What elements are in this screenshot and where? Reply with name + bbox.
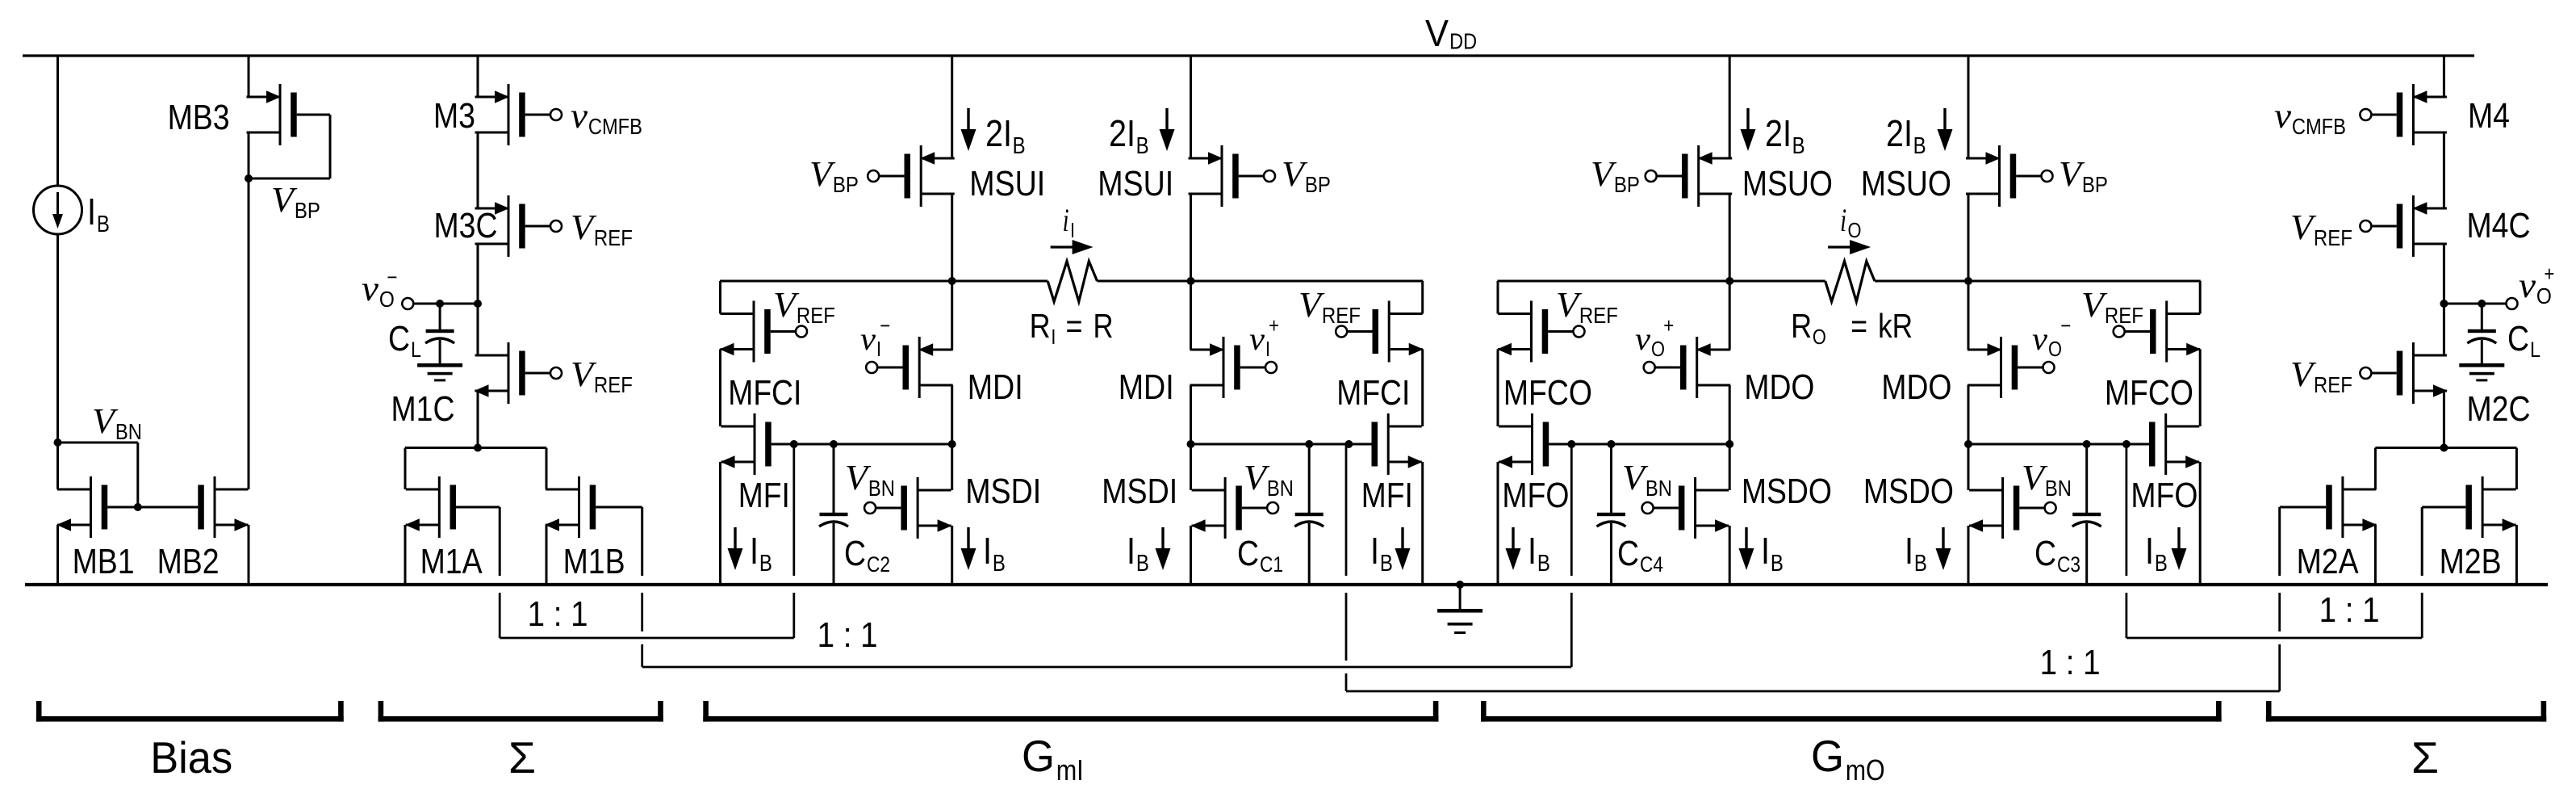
svg-text:I: I [2145, 530, 2154, 572]
svg-text:B: B [1537, 551, 1550, 577]
svg-text:2I: 2I [1886, 112, 1913, 154]
svg-text:I: I [983, 530, 992, 572]
svg-text:MSUI: MSUI [1098, 164, 1173, 203]
svg-text:−: − [880, 313, 890, 338]
svg-text:Σ: Σ [508, 732, 536, 782]
svg-text:mI: mI [1056, 753, 1084, 787]
svg-text:MSUO: MSUO [1861, 164, 1951, 203]
svg-text:MB3: MB3 [168, 98, 230, 137]
svg-text:MFCI: MFCI [1336, 373, 1410, 413]
svg-text:C: C [1617, 534, 1639, 573]
svg-text:R: R [1791, 307, 1812, 345]
svg-text:2I: 2I [1109, 112, 1135, 154]
svg-text:kR: kR [1878, 307, 1913, 345]
svg-text:MFO: MFO [2131, 476, 2198, 515]
svg-text:V: V [1425, 12, 1449, 54]
svg-text:v: v [860, 321, 876, 357]
svg-text:v: v [571, 96, 588, 136]
svg-text:O: O [1813, 325, 1826, 349]
svg-text:B: B [993, 551, 1006, 577]
svg-text:L: L [411, 338, 421, 362]
svg-text:v: v [362, 269, 379, 308]
svg-text:REF: REF [797, 303, 835, 328]
svg-text:G: G [1022, 731, 1055, 781]
svg-text:1 : 1: 1 : 1 [2319, 590, 2380, 630]
svg-text:M2B: M2B [2440, 542, 2502, 581]
svg-text:MSUO: MSUO [1742, 164, 1833, 203]
svg-text:v: v [2519, 266, 2536, 305]
svg-text:M1A: M1A [420, 542, 483, 581]
svg-text:BP: BP [833, 172, 859, 197]
svg-text:−: − [2060, 313, 2071, 338]
svg-text:I: I [1370, 530, 1379, 572]
svg-text:B: B [1136, 551, 1149, 577]
svg-text:MFCI: MFCI [728, 373, 801, 413]
svg-text:M1B: M1B [563, 542, 625, 581]
svg-text:B: B [1136, 133, 1149, 159]
svg-text:MSDI: MSDI [1102, 472, 1177, 511]
svg-text:C: C [1237, 534, 1259, 573]
svg-text:BN: BN [868, 476, 895, 501]
svg-text:DD: DD [1449, 29, 1477, 54]
svg-text:O: O [379, 287, 395, 312]
svg-text:B: B [97, 212, 110, 237]
svg-text:MSDO: MSDO [1863, 472, 1954, 511]
svg-text:MB1: MB1 [73, 542, 135, 581]
svg-text:B: B [1792, 133, 1805, 159]
svg-text:I: I [1265, 337, 1270, 361]
svg-text:I: I [750, 530, 759, 572]
svg-text:MFO: MFO [1502, 476, 1569, 515]
svg-text:C: C [2507, 319, 2529, 359]
svg-text:MFCO: MFCO [1503, 373, 1592, 413]
svg-text:REF: REF [2314, 225, 2352, 250]
svg-text:C3: C3 [2057, 552, 2080, 577]
svg-text:O: O [1651, 337, 1665, 361]
svg-text:+: + [2544, 262, 2554, 286]
svg-text:REF: REF [1579, 303, 1618, 328]
svg-text:MDO: MDO [1881, 367, 1951, 407]
svg-text:+: + [1663, 313, 1674, 338]
svg-text:MSDO: MSDO [1742, 472, 1832, 511]
svg-text:BP: BP [2082, 172, 2108, 197]
svg-text:MFCO: MFCO [2105, 373, 2193, 413]
svg-text:=: = [1066, 307, 1083, 345]
svg-text:B: B [759, 551, 772, 577]
svg-text:i: i [1840, 202, 1846, 238]
svg-text:mO: mO [1846, 753, 1885, 787]
svg-text:C: C [844, 534, 866, 573]
svg-text:M4C: M4C [2467, 206, 2531, 245]
svg-text:I: I [1070, 218, 1075, 242]
svg-text:=: = [1850, 307, 1867, 345]
svg-text:1 : 1: 1 : 1 [818, 615, 878, 655]
svg-text:−: − [387, 265, 397, 289]
svg-text:R: R [1030, 307, 1051, 345]
svg-text:C2: C2 [867, 552, 890, 577]
svg-text:O: O [2048, 337, 2062, 361]
svg-text:MDO: MDO [1744, 367, 1814, 407]
svg-text:v: v [1249, 321, 1265, 357]
svg-text:v: v [2274, 96, 2292, 136]
svg-text:MFI: MFI [738, 476, 790, 515]
svg-text:CMFB: CMFB [2292, 114, 2346, 139]
svg-text:BP: BP [295, 198, 320, 223]
svg-text:B: B [2155, 551, 2168, 577]
svg-text:M1C: M1C [391, 389, 455, 429]
svg-text:MSUI: MSUI [969, 164, 1045, 203]
svg-text:REF: REF [594, 372, 633, 397]
svg-text:I: I [1127, 530, 1135, 572]
svg-text:I: I [1761, 530, 1770, 572]
svg-text:M2C: M2C [2467, 389, 2531, 429]
svg-text:BN: BN [1267, 476, 1294, 501]
svg-text:v: v [1635, 321, 1650, 357]
svg-text:BN: BN [1646, 476, 1672, 501]
svg-text:BN: BN [115, 419, 142, 444]
svg-text:G: G [1811, 731, 1844, 781]
svg-text:i: i [1063, 202, 1069, 238]
svg-text:BP: BP [1614, 172, 1640, 197]
svg-text:B: B [1380, 551, 1393, 577]
svg-text:M3C: M3C [434, 206, 498, 245]
svg-text:MDI: MDI [968, 367, 1023, 407]
svg-text:BN: BN [2045, 476, 2072, 501]
svg-text:REF: REF [2105, 303, 2143, 328]
svg-text:B: B [1013, 133, 1026, 159]
svg-text:R: R [1094, 307, 1114, 345]
svg-text:I: I [876, 337, 881, 361]
svg-text:I: I [1051, 325, 1056, 349]
svg-text:MB2: MB2 [157, 542, 220, 581]
svg-text:REF: REF [594, 225, 633, 250]
svg-text:C4: C4 [1640, 552, 1663, 577]
svg-text:+: + [1269, 313, 1279, 338]
svg-text:I: I [1905, 530, 1913, 572]
svg-text:O: O [1848, 218, 1862, 242]
svg-text:v: v [2032, 321, 2047, 357]
svg-text:CMFB: CMFB [588, 114, 642, 139]
svg-text:C: C [388, 319, 410, 359]
svg-text:B: B [1913, 133, 1926, 159]
svg-text:M4: M4 [2468, 96, 2510, 136]
svg-text:REF: REF [2314, 372, 2352, 397]
svg-text:O: O [2536, 283, 2552, 308]
svg-text:Σ: Σ [2411, 732, 2439, 782]
svg-text:2I: 2I [985, 112, 1012, 154]
svg-text:L: L [2530, 338, 2540, 362]
svg-text:C: C [2034, 534, 2056, 573]
svg-text:1 : 1: 1 : 1 [528, 594, 588, 634]
svg-text:MFI: MFI [1361, 476, 1413, 515]
svg-text:REF: REF [1322, 303, 1361, 328]
svg-text:I: I [87, 191, 96, 233]
svg-text:M3: M3 [433, 96, 475, 136]
svg-text:Bias: Bias [150, 732, 232, 782]
svg-text:2I: 2I [1765, 112, 1792, 154]
svg-text:MDI: MDI [1119, 367, 1174, 407]
svg-text:BP: BP [1305, 172, 1331, 197]
svg-text:I: I [1528, 530, 1537, 572]
svg-text:B: B [1771, 551, 1784, 577]
svg-text:1 : 1: 1 : 1 [2040, 643, 2101, 682]
svg-text:MSDI: MSDI [965, 472, 1041, 511]
svg-text:C1: C1 [1260, 552, 1283, 577]
svg-text:B: B [1914, 551, 1927, 577]
svg-text:M2A: M2A [2297, 542, 2360, 581]
